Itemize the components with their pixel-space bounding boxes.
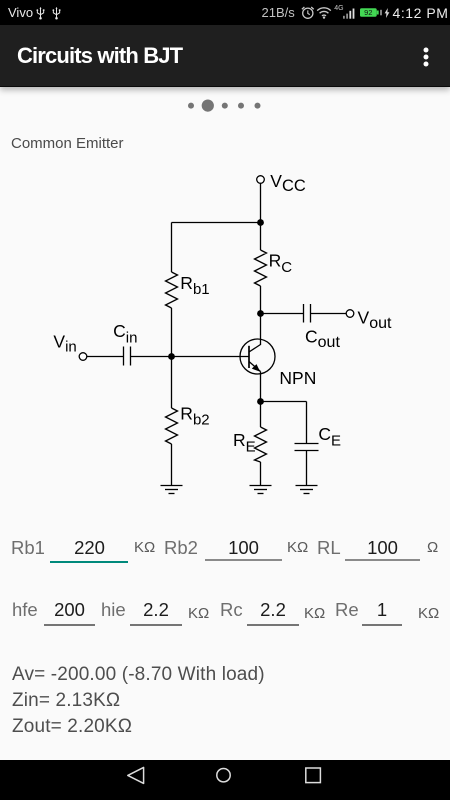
svg-text:Cout: Cout: [305, 327, 340, 351]
svg-text:Vout: Vout: [358, 308, 392, 333]
svg-text:RE: RE: [233, 430, 256, 456]
svg-text:92: 92: [364, 8, 372, 17]
svg-text:CE: CE: [318, 424, 341, 450]
svg-text:Rb2: Rb2: [180, 404, 209, 429]
svg-text:Cin: Cin: [113, 321, 137, 347]
svg-text:VCC: VCC: [270, 171, 306, 195]
svg-text:Rb1: Rb1: [180, 273, 209, 298]
svg-text:Vin: Vin: [53, 332, 76, 356]
svg-text:NPN: NPN: [279, 368, 316, 388]
svg-text:RC: RC: [269, 251, 293, 277]
